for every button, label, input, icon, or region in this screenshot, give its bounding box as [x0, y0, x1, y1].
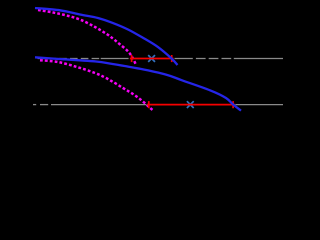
top red plus marker right	[171, 55, 173, 62]
top blue curve	[35, 8, 178, 65]
top red plus marker left	[131, 55, 133, 62]
top axis gray dashed left segment	[38, 58, 283, 60]
bottom axis solid right	[236, 104, 284, 106]
bottom x marker	[187, 101, 194, 108]
bottom axis short dashes	[33, 104, 36, 106]
bottom axis gray	[33, 104, 283, 106]
bottom red interval line	[147, 104, 235, 106]
top axis gray solid left-of-interval	[101, 58, 129, 60]
bottom red plus marker left	[148, 101, 150, 108]
bottom magenta dotted curve	[40, 60, 153, 110]
bottom red plus marker right	[232, 101, 234, 108]
top axis gray solid right-of-interval	[175, 58, 193, 60]
bottom blue curve	[35, 57, 241, 110]
top magenta dotted curve	[38, 10, 136, 65]
top red interval line	[130, 58, 174, 60]
chart: two-panel root-bracketing plot	[0, 0, 285, 155]
top x marker	[148, 55, 155, 62]
bottom axis solid left	[51, 104, 146, 106]
top axis gray solid far right	[234, 58, 283, 60]
top axis gray dashed right segment	[196, 58, 232, 60]
